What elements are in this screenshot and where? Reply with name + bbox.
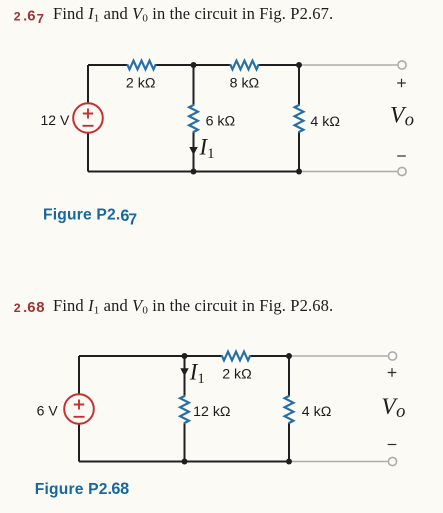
svg-text:6: 6 <box>27 300 35 316</box>
svg-text:2 kΩ: 2 kΩ <box>222 366 252 382</box>
svg-text:4 kΩ: 4 kΩ <box>310 114 340 130</box>
svg-text:Figure P2.: Figure P2. <box>43 207 120 224</box>
svg-text:2 kΩ: 2 kΩ <box>126 76 156 92</box>
svg-text:6: 6 <box>27 9 35 25</box>
svg-text:8: 8 <box>36 300 44 316</box>
svg-text:Figure P2.: Figure P2. <box>35 481 112 498</box>
svg-text:7: 7 <box>37 11 44 26</box>
svg-text:8 kΩ: 8 kΩ <box>230 76 260 92</box>
svg-text:12 V: 12 V <box>40 112 69 128</box>
svg-text:7: 7 <box>129 212 138 229</box>
svg-text:2: 2 <box>14 301 21 315</box>
svg-text:2: 2 <box>14 10 21 24</box>
svg-text:6 kΩ: 6 kΩ <box>206 113 236 129</box>
svg-text:68: 68 <box>111 480 129 498</box>
svg-text:4 kΩ: 4 kΩ <box>302 404 332 420</box>
svg-text:6 V: 6 V <box>37 403 59 419</box>
svg-text:12 kΩ: 12 kΩ <box>193 404 230 420</box>
